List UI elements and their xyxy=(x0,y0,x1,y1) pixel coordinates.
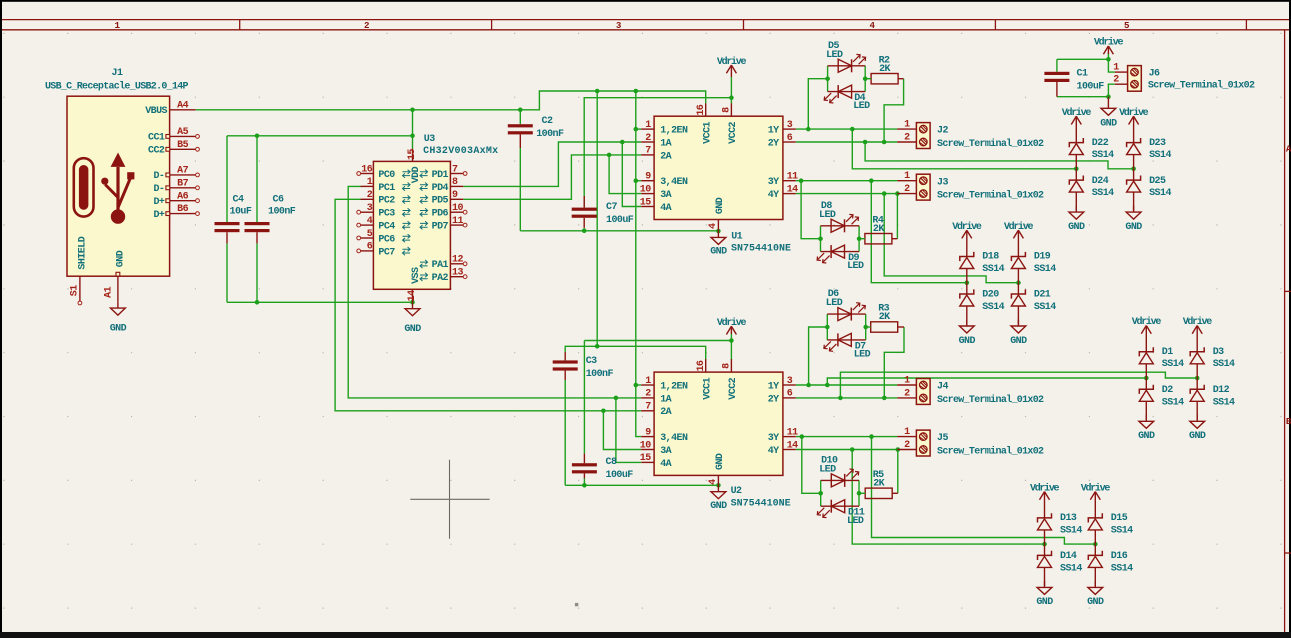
junction D3/D12 mid xyxy=(1195,376,1200,381)
ground symbol below D16 xyxy=(1087,581,1104,608)
wire C8 top lead xyxy=(583,341,585,454)
svg-text:D-: D- xyxy=(153,171,164,182)
svg-text:U1: U1 xyxy=(731,231,742,242)
connector J2 Screw_Terminal_01x02 xyxy=(897,120,1044,150)
wire C4/C6 top rail xyxy=(227,135,413,137)
svg-text:J5: J5 xyxy=(937,433,948,444)
junction 5V rail / U2 feed xyxy=(595,89,600,94)
svg-text:LED: LED xyxy=(819,210,836,221)
diode D18 SS14 xyxy=(960,252,1005,283)
svg-text:1: 1 xyxy=(367,177,373,188)
svg-text:SS14: SS14 xyxy=(1162,359,1184,370)
svg-text:C6: C6 xyxy=(273,195,284,206)
svg-text:PC1: PC1 xyxy=(378,183,395,194)
svg-text:PA1: PA1 xyxy=(432,260,449,271)
svg-text:1: 1 xyxy=(904,120,910,131)
diode D3 SS14 xyxy=(1190,347,1235,378)
power flag Vdrive (D22/D24 column) xyxy=(1062,107,1092,143)
svg-text:D23: D23 xyxy=(1149,138,1166,149)
wire U1 pin1 link xyxy=(636,128,641,130)
svg-text:3Y: 3Y xyxy=(768,433,779,444)
junction 2A/3A U1 xyxy=(607,153,612,158)
R5 right pin xyxy=(892,492,898,494)
LED D9 xyxy=(817,245,864,272)
svg-text:GND: GND xyxy=(715,453,726,470)
svg-text:C3: C3 xyxy=(586,356,597,367)
junction D15/D16 mid xyxy=(1093,542,1098,547)
junction Vdrive/VCC2 U1 xyxy=(729,95,734,100)
svg-text:A6: A6 xyxy=(177,191,188,202)
power flag Vdrive (D19/D21 column) xyxy=(1004,221,1034,257)
resistor R4 2K xyxy=(865,215,892,244)
svg-text:GND: GND xyxy=(404,324,421,335)
capacitor C3 100nF xyxy=(553,352,614,380)
svg-text:D3: D3 xyxy=(1213,347,1224,358)
frame row ticks and letters xyxy=(1285,290,1291,292)
svg-text:100nF: 100nF xyxy=(536,129,564,140)
junction 1A/4A U1 xyxy=(620,140,625,145)
svg-text:J4: J4 xyxy=(937,382,948,393)
svg-text:Screw_Terminal_01x02: Screw_Terminal_01x02 xyxy=(937,138,1044,150)
junction D6/D7 right xyxy=(863,325,868,330)
svg-text:13: 13 xyxy=(452,268,463,279)
junction U2 1Y to D1 xyxy=(825,383,830,388)
svg-text:16: 16 xyxy=(361,164,372,175)
LED D4 xyxy=(824,85,870,112)
junction U2 pin1 xyxy=(634,383,639,388)
svg-text:LED: LED xyxy=(826,298,843,309)
junction U2 4Y/R5 xyxy=(896,447,901,452)
svg-text:J3: J3 xyxy=(937,177,948,188)
resistor R2 2K xyxy=(871,55,898,84)
junction U2 1Y/D6 xyxy=(806,383,811,388)
svg-text:PA2: PA2 xyxy=(432,273,449,284)
wire LED pair frame D8/D9 xyxy=(820,226,822,252)
svg-text:1Y: 1Y xyxy=(768,381,779,392)
power flag Vdrive above U1 xyxy=(717,56,747,77)
svg-text:10uF: 10uF xyxy=(230,207,252,218)
svg-text:1: 1 xyxy=(645,120,651,131)
svg-text:2K: 2K xyxy=(873,224,884,235)
capacitor C7 100uF xyxy=(572,196,634,228)
wire C2 bottom to GND rail xyxy=(519,148,521,231)
wire GND rail under C4/C6 to U3 VSS xyxy=(226,243,228,302)
LED D6 xyxy=(826,289,866,320)
svg-text:3Y: 3Y xyxy=(768,177,779,188)
svg-text:1: 1 xyxy=(904,427,910,438)
wire 3Y to D18/D20 mid xyxy=(871,181,967,283)
wire C4 top lead xyxy=(226,136,228,222)
wire U1 2Y to J2 pin2 xyxy=(796,141,897,143)
wire 1Y riser to D5/D4 xyxy=(808,79,827,129)
power flag Vdrive (D18/D20 column) xyxy=(952,221,982,257)
svg-text:9: 9 xyxy=(645,172,651,183)
svg-text:2K: 2K xyxy=(879,312,890,323)
junction 1A/4A U2 xyxy=(614,396,619,401)
wire U1 2A-3A tie xyxy=(609,155,641,194)
svg-text:1: 1 xyxy=(645,376,651,387)
svg-text:A: A xyxy=(1286,144,1291,155)
svg-text:6: 6 xyxy=(787,389,793,400)
junction 1Y/D5 xyxy=(806,127,811,132)
wire U2 1A-4A tie xyxy=(616,398,641,463)
svg-text:CC2: CC2 xyxy=(148,146,165,157)
svg-text:GND: GND xyxy=(1125,222,1142,233)
svg-text:USB_C_Receptacle_USB2.0_14P: USB_C_Receptacle_USB2.0_14P xyxy=(45,80,189,92)
svg-text:7: 7 xyxy=(645,402,651,413)
svg-text:SS14: SS14 xyxy=(1162,397,1184,408)
junction D8/D9 left xyxy=(818,236,823,241)
wire U2 GND rail xyxy=(565,484,718,486)
svg-text:PD6: PD6 xyxy=(432,209,449,220)
junction C8 bottom xyxy=(582,483,587,488)
svg-text:7: 7 xyxy=(645,146,651,157)
R4 right pin xyxy=(892,238,898,240)
wire R4 left lead xyxy=(859,238,865,240)
driver U2 SN754410NE xyxy=(640,359,798,487)
junction C3 rail xyxy=(595,344,600,349)
svg-text:SS14: SS14 xyxy=(1213,397,1235,408)
svg-text:C7: C7 xyxy=(606,202,617,213)
junction D6/D7 left xyxy=(825,325,830,330)
svg-text:11: 11 xyxy=(787,172,798,183)
svg-text:2: 2 xyxy=(904,132,910,143)
ground symbol below D20 xyxy=(959,320,976,347)
junction C7 bottom xyxy=(582,229,587,234)
svg-text:C8: C8 xyxy=(606,457,617,468)
wire U2 2Y to J4 pin2 xyxy=(796,397,897,399)
window edges xyxy=(0,0,1291,2)
svg-text:VSS: VSS xyxy=(411,267,422,284)
svg-text:GND: GND xyxy=(116,250,127,267)
svg-text:GND: GND xyxy=(1010,336,1027,347)
svg-text:2: 2 xyxy=(645,389,651,400)
svg-text:PD7: PD7 xyxy=(432,222,449,233)
svg-text:D15: D15 xyxy=(1111,513,1128,524)
junction 4Y/D19 riser xyxy=(882,191,887,196)
svg-text:1: 1 xyxy=(904,375,910,386)
svg-text:2Y: 2Y xyxy=(768,138,779,149)
resistor R3 2K xyxy=(871,304,898,333)
svg-text:SS14: SS14 xyxy=(1149,188,1171,199)
svg-text:8: 8 xyxy=(722,363,733,369)
diode D23 SS14 xyxy=(1127,138,1172,169)
svg-text:A4: A4 xyxy=(177,100,188,111)
wire C1 bottom / J6 pin2 / GND xyxy=(1057,96,1109,98)
svg-text:2: 2 xyxy=(904,184,910,195)
svg-text:SS14: SS14 xyxy=(1092,188,1114,199)
wire VDD drop to U3 xyxy=(412,110,414,149)
junction 3Y to D18 xyxy=(869,178,874,183)
diode D25 SS14 xyxy=(1127,169,1172,211)
svg-text:6: 6 xyxy=(787,133,793,144)
wire U1 1Y to J2 pin1 xyxy=(796,128,897,130)
LED D7 xyxy=(824,333,871,360)
wire U1 3Y to J3 pin1 xyxy=(796,180,897,182)
junction D10/D11 right xyxy=(857,491,862,496)
wire R3 output to U2 2Y xyxy=(884,327,904,398)
driver U1 SN754410NE xyxy=(640,103,798,231)
svg-text:PD4: PD4 xyxy=(432,183,449,194)
resistor R5 2K xyxy=(865,470,892,499)
junction D23/D25 mid xyxy=(1131,167,1136,172)
wire LED pair frame D5/D4 xyxy=(827,66,829,92)
svg-text:8: 8 xyxy=(452,177,458,188)
wire 3Y drop to D10/D11 xyxy=(802,437,821,494)
ground symbol below D24 xyxy=(1068,206,1085,233)
junction D22/D24 mid xyxy=(1074,167,1079,172)
svg-text:VCC1: VCC1 xyxy=(702,121,713,143)
wire Vdrive stem to U1 VCC2 xyxy=(730,77,732,103)
wire LED pair frame D10/D11 xyxy=(820,480,822,506)
svg-text:100uF: 100uF xyxy=(1077,81,1105,92)
wire R4 output to 4Y xyxy=(896,194,898,239)
svg-text:16: 16 xyxy=(696,104,707,115)
wire C3 top rail to U2 VCC1 xyxy=(565,346,706,360)
svg-text:CC1: CC1 xyxy=(148,133,165,144)
svg-text:A7: A7 xyxy=(177,166,188,177)
svg-text:GND: GND xyxy=(710,501,727,512)
svg-text:GND: GND xyxy=(1068,222,1085,233)
svg-text:D1: D1 xyxy=(1162,347,1173,358)
svg-text:1,2EN: 1,2EN xyxy=(660,381,688,392)
LED D5 xyxy=(826,41,866,72)
diode D13 SS14 xyxy=(1038,513,1083,544)
diode D22 SS14 xyxy=(1069,138,1114,169)
svg-text:SN754410NE: SN754410NE xyxy=(731,244,791,255)
diode D19 SS14 xyxy=(1011,252,1056,283)
svg-text:PC6: PC6 xyxy=(378,234,395,245)
svg-text:4A: 4A xyxy=(660,203,671,214)
ground symbol below D12 xyxy=(1189,415,1206,442)
power flag Vdrive above J6 xyxy=(1094,37,1124,55)
svg-text:S1: S1 xyxy=(70,285,81,296)
wire C8 bottom lead xyxy=(583,478,585,485)
svg-text:10: 10 xyxy=(640,184,651,195)
svg-text:1: 1 xyxy=(904,171,910,182)
diode D14 SS14 xyxy=(1038,544,1083,586)
svg-text:LED: LED xyxy=(826,50,843,61)
ground symbol under U2 xyxy=(710,485,727,512)
ground symbol below D2 xyxy=(1138,415,1155,442)
wire 5V drop to U2 VCC1/C3 xyxy=(596,91,598,346)
capacitor C1 100uF xyxy=(1044,68,1104,96)
svg-text:A1: A1 xyxy=(103,286,114,297)
ground symbol C1/J6 xyxy=(1100,97,1117,130)
wire U1 pin9 link xyxy=(636,180,641,182)
wire EN vertical U1+U2 xyxy=(636,91,641,437)
junction D18/D20 mid xyxy=(965,280,970,285)
svg-text:2: 2 xyxy=(1113,75,1119,86)
svg-text:100nF: 100nF xyxy=(268,207,296,218)
junction C6 bottom xyxy=(255,300,260,305)
svg-text:VBUS: VBUS xyxy=(145,106,167,117)
svg-text:SS14: SS14 xyxy=(1092,150,1114,161)
svg-text:4Y: 4Y xyxy=(768,446,779,457)
svg-text:U3: U3 xyxy=(424,134,435,145)
wire R3 left lead xyxy=(866,326,871,328)
wire U2 2Y to D3/D12 mid xyxy=(840,372,1197,398)
wire 1Y riser to D6/D7 xyxy=(809,327,828,385)
svg-text:11: 11 xyxy=(787,427,798,438)
ground symbol under U3 xyxy=(404,302,421,335)
wire U3 PC1 to U2 1A xyxy=(348,186,641,398)
wire U1 4Y to J3 pin2 xyxy=(796,193,897,195)
svg-text:D20: D20 xyxy=(982,290,999,301)
diode D12 SS14 xyxy=(1190,378,1235,420)
svg-text:2: 2 xyxy=(364,20,369,31)
svg-text:1: 1 xyxy=(1113,63,1119,74)
junction D5/D4 right xyxy=(863,76,868,81)
wire U2 3Y to J5 pin1 xyxy=(796,436,897,438)
wire VBUS from J1 to U1 area xyxy=(196,91,706,110)
svg-text:3A: 3A xyxy=(660,446,671,457)
junction U3 VSS xyxy=(410,300,415,305)
LED D11 xyxy=(817,500,865,527)
svg-text:D14: D14 xyxy=(1060,551,1077,562)
svg-text:PD1: PD1 xyxy=(432,170,449,181)
power flag Vdrive (D23/D25 column) xyxy=(1119,107,1149,143)
power flag Vdrive (D1/D2 column) xyxy=(1132,316,1162,352)
svg-text:SS14: SS14 xyxy=(1060,563,1082,574)
diode D21 SS14 xyxy=(1011,283,1056,325)
svg-text:3: 3 xyxy=(787,120,793,131)
wire C6 top lead xyxy=(256,136,258,222)
junction 4Y/R4 xyxy=(895,191,900,196)
junction VBUS/VDD xyxy=(410,108,415,113)
svg-text:D21: D21 xyxy=(1034,290,1051,301)
capacitor C8 100uF xyxy=(572,454,633,481)
svg-text:100nF: 100nF xyxy=(586,369,614,380)
svg-text:15: 15 xyxy=(407,149,418,160)
wire U2 3Y to D15/D16 mid xyxy=(872,437,1096,544)
svg-text:GND: GND xyxy=(959,336,976,347)
svg-text:J2: J2 xyxy=(937,126,948,137)
svg-text:SS14: SS14 xyxy=(1034,302,1056,313)
svg-text:2A: 2A xyxy=(660,407,671,418)
svg-text:4: 4 xyxy=(708,223,719,229)
ground symbol under U1 xyxy=(710,231,727,258)
wire U3 PC2 to U2 2A xyxy=(335,199,641,410)
svg-text:6: 6 xyxy=(367,242,373,253)
svg-text:B7: B7 xyxy=(177,178,188,189)
svg-text:14: 14 xyxy=(787,440,798,451)
svg-text:4A: 4A xyxy=(660,459,671,470)
svg-text:3,4EN: 3,4EN xyxy=(660,433,688,444)
svg-text:LED: LED xyxy=(854,350,871,361)
svg-text:B: B xyxy=(1286,416,1291,427)
junction 3Y/D8 xyxy=(799,178,804,183)
svg-text:3,4EN: 3,4EN xyxy=(660,177,688,188)
svg-text:PC3: PC3 xyxy=(378,209,395,220)
junction 2Y/D23 riser xyxy=(863,140,868,145)
wire Vdrive to C1/J6 xyxy=(1108,53,1114,72)
svg-text:7: 7 xyxy=(452,164,458,175)
svg-text:SS14: SS14 xyxy=(982,264,1004,275)
diode D16 SS14 xyxy=(1088,544,1133,586)
svg-text:D12: D12 xyxy=(1213,385,1230,396)
svg-text:D2: D2 xyxy=(1162,385,1173,396)
LED D8 xyxy=(819,201,859,232)
junction U1 pin9 xyxy=(634,178,639,183)
svg-text:1A: 1A xyxy=(660,394,671,405)
editor crosshair cursor xyxy=(410,460,489,539)
svg-text:1,2EN: 1,2EN xyxy=(660,126,688,137)
junction U1 pin1 xyxy=(634,127,639,132)
junction C6 top xyxy=(255,134,260,139)
wire U3 PD5 to U1 2A xyxy=(463,155,641,199)
svg-text:9: 9 xyxy=(452,190,458,201)
diode D20 SS14 xyxy=(960,283,1005,325)
wire C7 bottom lead xyxy=(583,228,585,231)
svg-text:2: 2 xyxy=(904,440,910,451)
svg-text:LED: LED xyxy=(853,101,870,112)
USB icon inside J1 xyxy=(74,158,94,216)
junction D5/D4 left xyxy=(825,76,830,81)
svg-text:GND: GND xyxy=(110,323,127,334)
svg-text:PC4: PC4 xyxy=(378,222,395,233)
svg-text:PC0: PC0 xyxy=(378,170,395,181)
junction U1 GND xyxy=(716,229,721,234)
wire C2 top lead xyxy=(519,110,521,124)
connector J4 Screw_Terminal_01x02 xyxy=(897,375,1044,405)
svg-text:VCC1: VCC1 xyxy=(702,377,713,399)
svg-text:GND: GND xyxy=(1138,431,1155,442)
svg-text:SS14: SS14 xyxy=(1034,264,1056,275)
junction D13/D14 mid xyxy=(1042,542,1047,547)
svg-text:D22: D22 xyxy=(1092,138,1109,149)
junction 2A/3A U2 xyxy=(601,409,606,414)
svg-text:100uF: 100uF xyxy=(606,470,634,481)
svg-text:PC2: PC2 xyxy=(378,196,395,207)
svg-text:Screw_Terminal_01x02: Screw_Terminal_01x02 xyxy=(1148,80,1255,92)
svg-text:D24: D24 xyxy=(1092,176,1109,187)
junction VBUS/C2 xyxy=(518,108,523,113)
svg-text:2Y: 2Y xyxy=(768,394,779,405)
svg-text:GND: GND xyxy=(1100,119,1117,130)
wire R5 output to U2 4Y xyxy=(897,450,899,494)
wire R2 output to 2Y xyxy=(884,79,904,142)
svg-text:Screw_Terminal_01x02: Screw_Terminal_01x02 xyxy=(937,190,1044,202)
svg-text:10: 10 xyxy=(452,203,463,214)
junction Vdrive C1/J6 xyxy=(1106,57,1111,62)
junction D8/D9 right xyxy=(857,236,862,241)
svg-text:10: 10 xyxy=(640,440,651,451)
svg-text:U2: U2 xyxy=(731,486,742,497)
power flag Vdrive (D3/D12 column) xyxy=(1183,316,1213,352)
svg-text:15: 15 xyxy=(640,197,651,208)
svg-text:Screw_Terminal_01x02: Screw_Terminal_01x02 xyxy=(937,445,1044,457)
svg-text:SS14: SS14 xyxy=(1060,525,1082,536)
svg-text:SHIELD: SHIELD xyxy=(78,236,89,269)
wire 3Y drop to D8/D9 xyxy=(801,181,820,239)
svg-text:GND: GND xyxy=(1087,597,1104,608)
svg-text:D+: D+ xyxy=(153,197,164,208)
svg-text:GND: GND xyxy=(710,247,727,258)
svg-text:15: 15 xyxy=(640,453,651,464)
power flag Vdrive (D15/D16 column) xyxy=(1081,482,1111,518)
junction U2 3Y riser xyxy=(869,434,874,439)
junction 2Y/R2 xyxy=(882,140,887,145)
svg-text:14: 14 xyxy=(787,184,798,195)
svg-text:LED: LED xyxy=(847,516,864,527)
grid origin marker xyxy=(575,603,578,606)
svg-text:100uF: 100uF xyxy=(606,215,634,226)
capacitor C4 10uF xyxy=(215,195,252,244)
svg-text:C1: C1 xyxy=(1077,68,1088,79)
svg-text:D19: D19 xyxy=(1034,252,1051,263)
connector J5 Screw_Terminal_01x02 xyxy=(897,427,1044,457)
